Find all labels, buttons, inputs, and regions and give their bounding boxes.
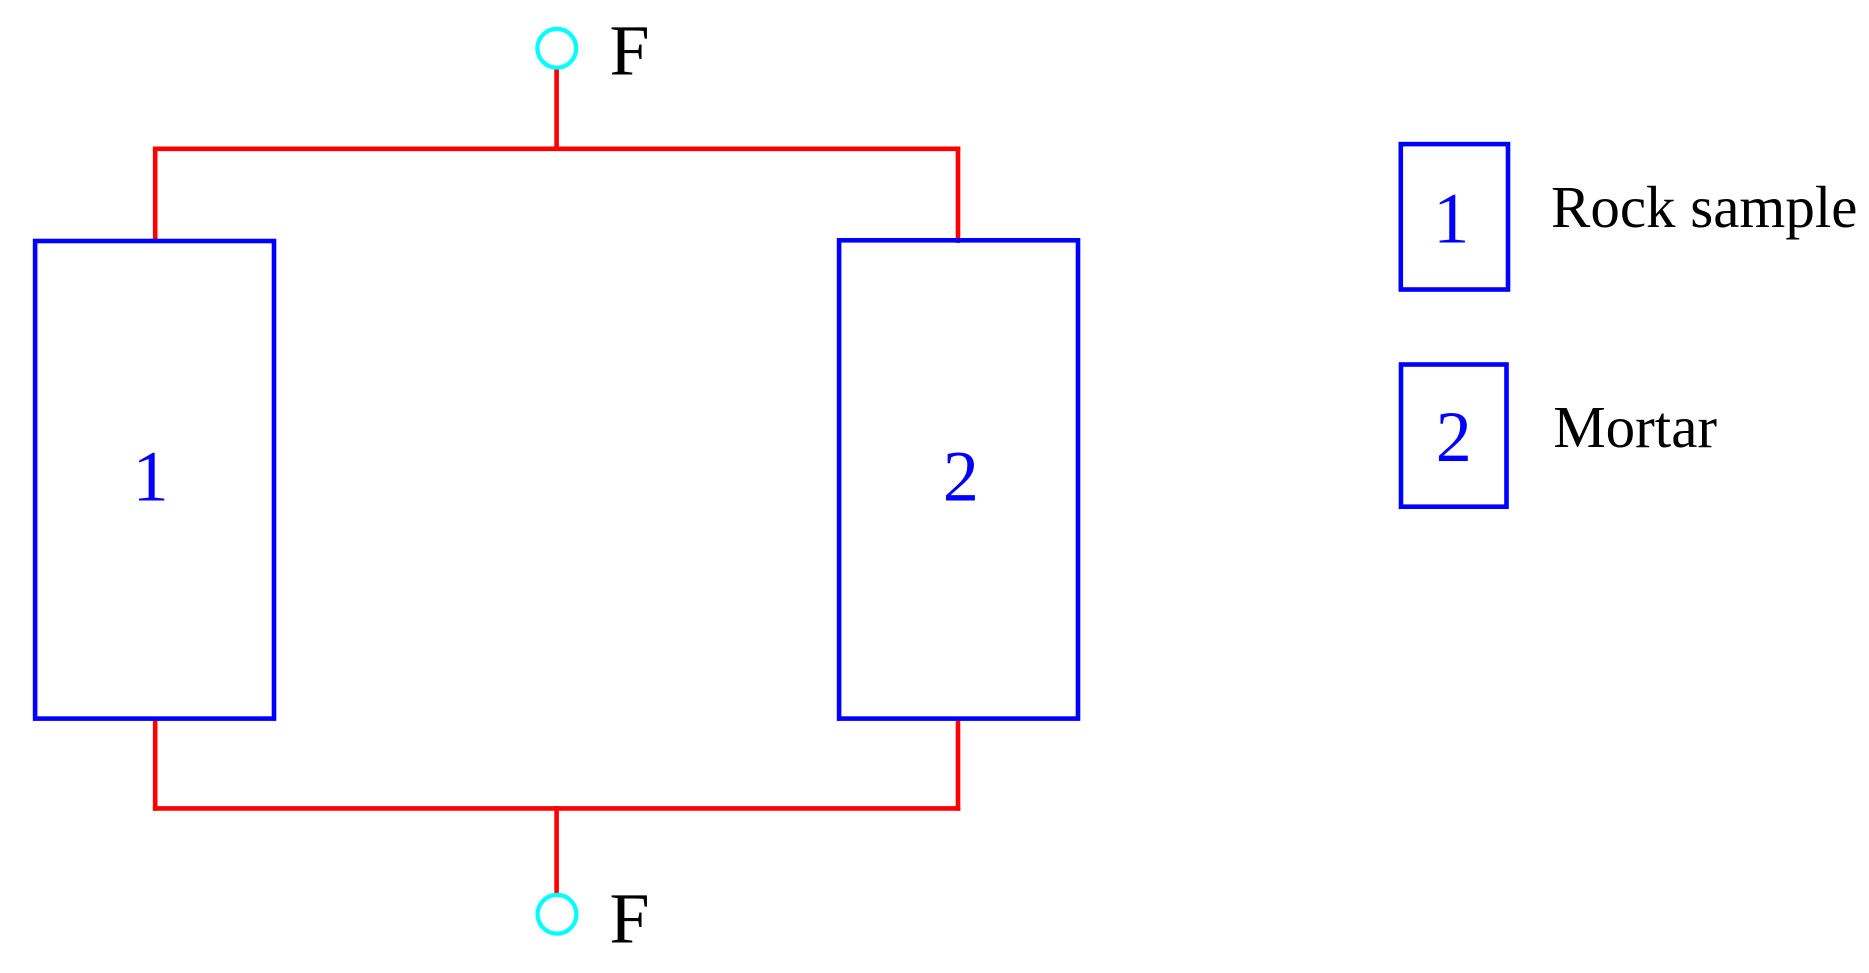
legend box 2	[1401, 365, 1507, 507]
node F (bottom terminal circle)	[538, 895, 577, 934]
legend box 1	[1401, 144, 1508, 289]
svg-text:Rock sample: Rock sample	[1551, 174, 1857, 240]
wire top horizontal rail	[153, 147, 960, 152]
svg-text:Mortar: Mortar	[1553, 394, 1717, 460]
wire top-right vertical drop to element 2	[956, 147, 961, 244]
wire top stub from node F to top rail	[554, 68, 559, 151]
wire bottom-right vertical from element 2	[956, 718, 961, 811]
wire bottom stub from bottom rail to node F	[554, 806, 559, 893]
svg-text:F: F	[610, 11, 650, 91]
wire bottom horizontal rail	[153, 806, 960, 811]
node F (top terminal circle)	[537, 29, 576, 68]
element 1: rock sample box	[35, 241, 274, 719]
svg-text:1: 1	[1433, 178, 1469, 258]
wire top-left vertical drop to element 1	[153, 147, 158, 244]
svg-text:1: 1	[133, 437, 169, 517]
element 2: mortar box	[839, 240, 1078, 718]
wire bottom-left vertical from element 1	[153, 718, 158, 811]
svg-text:2: 2	[1436, 397, 1472, 477]
svg-text:2: 2	[943, 437, 979, 517]
svg-text:F: F	[610, 879, 650, 959]
